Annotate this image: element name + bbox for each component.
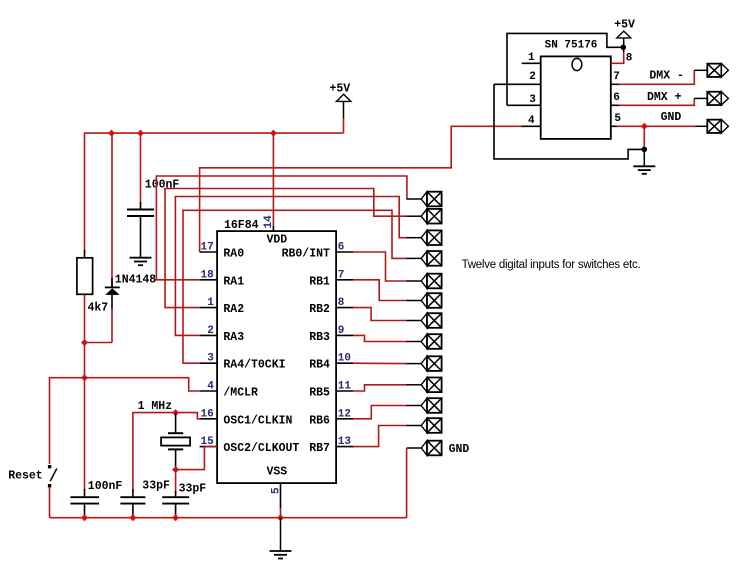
U2 pin 6 stub xyxy=(611,92,620,106)
svg-text:11: 11 xyxy=(338,381,352,393)
svg-text:+5V: +5V xyxy=(330,83,351,96)
wire +5V drop to top bus xyxy=(343,118,345,133)
svg-text:13: 13 xyxy=(338,436,352,448)
input connector 10 xyxy=(407,378,442,393)
junction on bus at diode xyxy=(108,130,115,137)
wire DMX- from pin 7 xyxy=(619,69,708,84)
wire RB7 to input connector 12 xyxy=(353,426,407,447)
wire RB4 to input connector 9 xyxy=(353,362,407,364)
wire RB5 to input connector 10 xyxy=(353,385,407,391)
junction on GND wire xyxy=(641,123,648,130)
ground below U1 xyxy=(270,518,292,559)
svg-text:SN 75176: SN 75176 xyxy=(545,39,598,51)
wire MCLR node to reset switch xyxy=(50,378,85,464)
wire VDD pin14 drop xyxy=(272,133,274,231)
svg-text:2: 2 xyxy=(207,325,214,337)
connector DMX- xyxy=(707,64,728,77)
svg-text:+5V: +5V xyxy=(614,18,635,31)
wire U2 pin2 to ground xyxy=(494,84,644,159)
svg-text:2: 2 xyxy=(529,71,536,83)
input connector 2 xyxy=(407,209,442,224)
input connector 11 xyxy=(407,398,442,413)
svg-text:GND: GND xyxy=(661,111,682,124)
svg-text:8: 8 xyxy=(626,53,633,65)
junction on bus at VDD drop xyxy=(270,130,277,137)
svg-text:RB2: RB2 xyxy=(309,303,330,316)
junction dot (black) above ground xyxy=(642,147,648,153)
wire RA0 to U2 pin4 xyxy=(200,126,523,252)
svg-text:7: 7 xyxy=(338,269,345,281)
svg-text:8: 8 xyxy=(338,297,345,309)
svg-text:RB0/INT: RB0/INT xyxy=(282,248,330,261)
svg-text:18: 18 xyxy=(201,269,215,281)
svg-text:1: 1 xyxy=(207,297,214,309)
U1 pin 12 RB6 xyxy=(309,408,353,427)
wire RA3 to input connector 3 xyxy=(175,197,406,336)
junction dot at +5V (black) xyxy=(621,45,627,51)
U1 pin 10 RB4 xyxy=(309,353,353,372)
wire RA4 to input connector 4 xyxy=(183,210,407,363)
input connector 5 xyxy=(407,274,442,289)
wire diode bottom to junction xyxy=(85,342,113,344)
svg-text:DMX -: DMX - xyxy=(649,69,684,82)
svg-text:RA3: RA3 xyxy=(223,331,244,344)
junction bus at C4 xyxy=(172,514,179,521)
svg-text:GND: GND xyxy=(449,443,470,456)
IC U2 SN 75176 body xyxy=(541,39,611,139)
connector 13 GND xyxy=(407,441,470,457)
junction crystal top xyxy=(172,409,179,416)
U2 pin 1 stub xyxy=(522,52,541,64)
connector DMX+ xyxy=(707,92,728,105)
junction on bus at 100nF xyxy=(137,130,144,137)
U2 pin 3 stub xyxy=(507,94,541,106)
resistor R1 4k7 xyxy=(77,250,108,343)
wire MCLR node junction xyxy=(81,374,88,381)
wire 1MHz node (left leg) xyxy=(133,413,176,491)
svg-text:RA0: RA0 xyxy=(223,248,244,261)
svg-text:VDD: VDD xyxy=(267,233,288,246)
wire RA1 to input connector 1 xyxy=(156,176,407,280)
U1 pin 17 RA0 xyxy=(200,242,245,261)
power +5V symbol (right) xyxy=(614,18,635,47)
junction bus at C3 xyxy=(129,514,136,521)
svg-text:RA1: RA1 xyxy=(223,275,244,288)
U1 pin 11 RB5 xyxy=(309,381,353,400)
svg-text:RB3: RB3 xyxy=(309,331,330,344)
svg-text:1: 1 xyxy=(528,52,535,64)
svg-text:33pF: 33pF xyxy=(179,483,207,496)
svg-text:9: 9 xyxy=(338,325,345,337)
svg-text:12: 12 xyxy=(338,408,351,420)
U1 pin 4 /MCLR xyxy=(200,381,258,400)
svg-text:100nF: 100nF xyxy=(145,179,180,192)
input connector 9 xyxy=(407,356,442,371)
U1 pin 7 RB1 xyxy=(309,269,353,288)
U1 pin 18 RA1 xyxy=(200,269,245,288)
wire junction down to MCLR node xyxy=(84,343,86,378)
diode D1 1N4148 xyxy=(105,133,157,342)
junction bus at C2 xyxy=(81,514,88,521)
IC U1 16F84 body xyxy=(217,219,336,483)
wire OSC2 to crystal bottom xyxy=(176,447,218,470)
capacitor C4 33pF xyxy=(162,483,206,518)
svg-text:17: 17 xyxy=(201,242,214,254)
svg-text:RB6: RB6 xyxy=(309,414,330,427)
svg-text:RB5: RB5 xyxy=(309,387,330,400)
input connector 3 xyxy=(407,230,442,245)
svg-text:4: 4 xyxy=(528,115,535,127)
U1 pin 3 RA4/T0CKI xyxy=(200,353,286,372)
wire crystal bottom to C4 xyxy=(175,470,177,493)
wire bottom ground bus xyxy=(50,517,407,519)
ground under C1 xyxy=(130,258,152,266)
power +5V symbol (left) xyxy=(330,83,351,120)
input connector 6 xyxy=(407,293,442,308)
wire junction down to ground dot xyxy=(643,126,645,149)
svg-text:RB1: RB1 xyxy=(309,275,330,288)
input connector 12 xyxy=(407,418,442,433)
svg-text:RA4/T0CKI: RA4/T0CKI xyxy=(223,359,285,372)
svg-text:3: 3 xyxy=(207,353,214,365)
svg-text:4k7: 4k7 xyxy=(88,302,109,315)
U2 pin 2 stub xyxy=(494,71,541,84)
connector GND (right) xyxy=(707,120,728,133)
svg-text:OSC1/CLKIN: OSC1/CLKIN xyxy=(223,414,292,427)
wire U2 pin3 to +5V xyxy=(507,33,623,105)
svg-text:6: 6 xyxy=(613,92,620,104)
wire RB2 to input connector 7 xyxy=(353,308,407,321)
svg-text:3: 3 xyxy=(529,94,536,106)
wire RA2 to input connector 2 xyxy=(165,189,407,308)
wire GND connector to bottom bus xyxy=(406,448,408,518)
U1 pin 1 RA2 xyxy=(200,297,245,316)
capacitor C2 100nF (bottom) xyxy=(70,480,122,518)
U2 pin 8 wire to +5V dot xyxy=(611,47,633,64)
capacitor C3 33pF xyxy=(120,480,170,518)
svg-text:10: 10 xyxy=(338,353,351,365)
svg-text:OSC2/CLKOUT: OSC2/CLKOUT xyxy=(223,442,299,455)
wire RB3 to input connector 8 xyxy=(353,335,407,341)
U1 pin 8 RB2 xyxy=(309,297,353,316)
svg-text:/MCLR: /MCLR xyxy=(223,387,258,400)
svg-text:VSS: VSS xyxy=(267,466,288,479)
U1 pin 9 RB3 xyxy=(309,325,353,344)
junction crystal bottom xyxy=(172,466,179,473)
U1 pin 15 OSC2/CLKOUT xyxy=(200,436,300,455)
svg-text:4: 4 xyxy=(207,381,214,393)
svg-text:DMX +: DMX + xyxy=(647,91,682,104)
svg-text:1N4148: 1N4148 xyxy=(115,274,157,287)
svg-text:16F84: 16F84 xyxy=(224,219,259,232)
svg-text:100nF: 100nF xyxy=(88,480,123,493)
U1 pin 16 OSC1/CLKIN xyxy=(200,408,293,427)
wire RB0 to input connector 5 xyxy=(353,252,407,281)
U2 pin 5 stub xyxy=(611,113,622,127)
svg-text:RB7: RB7 xyxy=(309,442,330,455)
crystal X1 1 MHz xyxy=(138,400,191,470)
wire MCLR node down to C2 xyxy=(84,378,86,491)
switch SW reset xyxy=(8,465,57,518)
input connector 4 xyxy=(407,251,442,266)
input connector 1 xyxy=(407,192,442,207)
svg-text:33pF: 33pF xyxy=(142,480,170,493)
svg-text:1 MHz: 1 MHz xyxy=(138,400,173,413)
U1 pin 6 RB0/INT xyxy=(282,242,354,261)
junction resistor/diode xyxy=(81,339,88,346)
U2 pin 4 stub xyxy=(522,115,541,127)
svg-text:Reset: Reset xyxy=(8,470,43,483)
U1 pin 2 RA3 xyxy=(200,325,245,344)
svg-text:16: 16 xyxy=(201,408,214,420)
wire U1 VSS pin 5 to bus xyxy=(280,483,282,518)
svg-text:Twelve digital inputs for swit: Twelve digital inputs for switches etc. xyxy=(462,259,641,271)
svg-text:RA2: RA2 xyxy=(223,303,244,316)
capacitor C1 100nF (top) xyxy=(127,133,179,258)
U2 pin 7 stub xyxy=(611,71,620,85)
wire top +5V bus xyxy=(85,133,344,252)
wire RB6 to input connector 11 xyxy=(353,406,407,419)
ground below U2 xyxy=(633,149,655,173)
svg-text:6: 6 xyxy=(338,242,345,254)
input connector 7 xyxy=(407,313,442,328)
wire RB1 to input connector 6 xyxy=(353,280,407,301)
input connector 8 xyxy=(407,334,442,349)
svg-text:14: 14 xyxy=(263,215,275,229)
svg-text:7: 7 xyxy=(613,71,620,83)
U1 pin 13 RB7 xyxy=(309,436,353,455)
wire DMX+ from pin 6 xyxy=(619,91,708,105)
wire MCLR node to U1 pin 4 xyxy=(85,378,201,391)
wire OSC1 to crystal top xyxy=(176,413,201,419)
svg-text:5: 5 xyxy=(614,113,621,125)
svg-text:RB4: RB4 xyxy=(309,359,330,372)
wire GND from pin 5 xyxy=(617,111,708,126)
junction bus at VSS xyxy=(277,514,284,521)
